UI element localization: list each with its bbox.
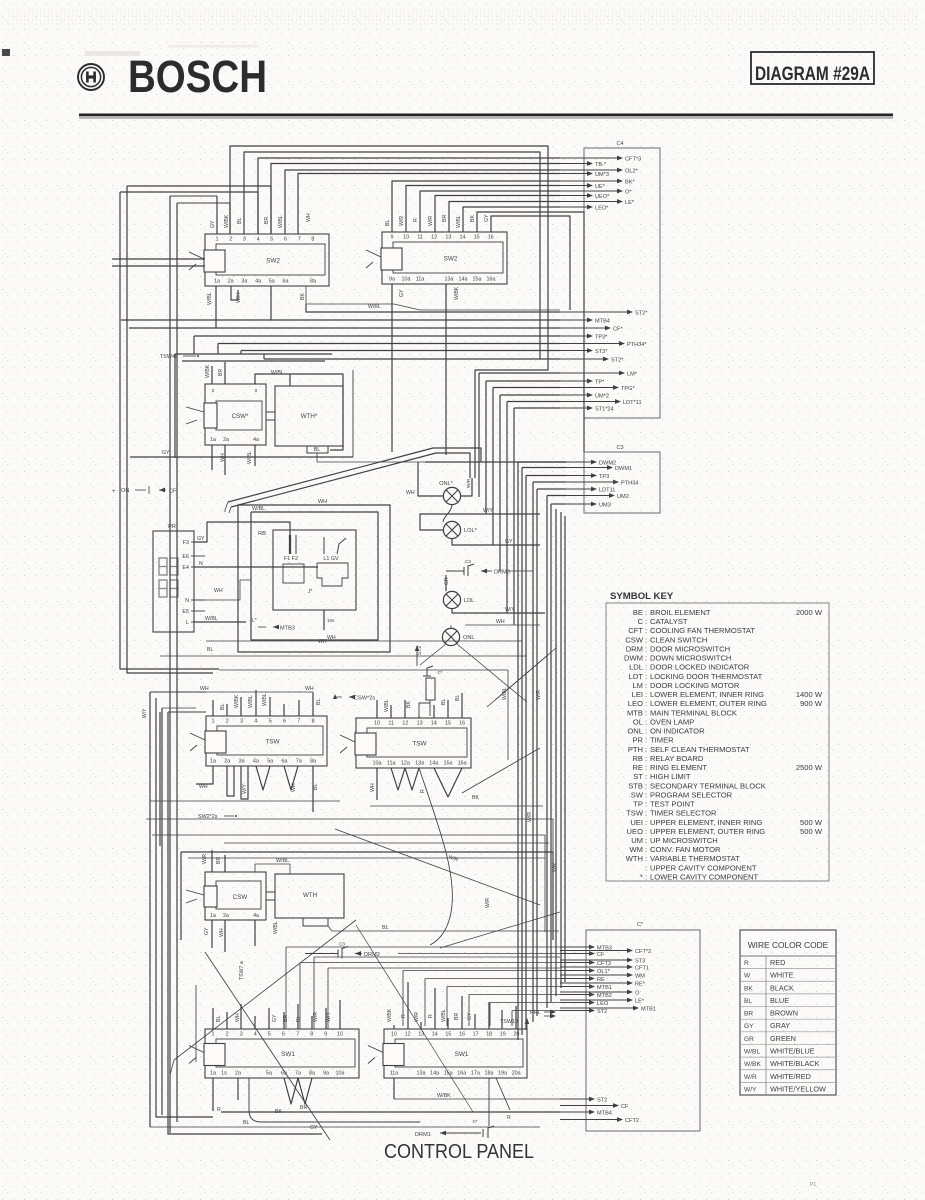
- wire loop around CSW*/WTH*: [182, 360, 325, 362]
- svg-text:WH: WH: [214, 588, 223, 594]
- svg-text:10: 10: [403, 235, 409, 241]
- wire SW2L 8a drop: [306, 286, 560, 310]
- svg-text:GR: GR: [444, 577, 450, 585]
- C1 terminal ST2: [560, 1010, 594, 1012]
- svg-text:CLEAN SWITCH: CLEAN SWITCH: [650, 635, 707, 644]
- wire SW1L bottom V loops: [284, 1078, 298, 1104]
- wire SW1L riser x269: [268, 1008, 270, 1029]
- C1 terminal CFT3: [560, 962, 594, 964]
- scan noise rows (decorative): [8, 11, 917, 13]
- C4 terminal OL2*: [560, 169, 622, 171]
- svg-text:W/BK: W/BK: [437, 1093, 451, 1099]
- svg-text:8: 8: [310, 1032, 313, 1038]
- svg-text:WH: WH: [220, 453, 226, 462]
- svg-text::: :: [645, 672, 647, 681]
- wire bundle vertical 4: [532, 482, 534, 1022]
- svg-text:SW1: SW1: [455, 1051, 469, 1058]
- svg-text:16: 16: [459, 1032, 465, 1038]
- C4 terminal CFT*3: [560, 157, 622, 159]
- connector C1 box: [586, 930, 700, 1131]
- svg-text:8a: 8a: [309, 1071, 315, 1077]
- wire bundle vertical 8: [555, 509, 557, 996]
- svg-text:C*: C*: [637, 922, 644, 928]
- wire bundle vertical 5: [536, 489, 538, 1016]
- svg-text:5: 5: [268, 1032, 271, 1038]
- svg-text:16: 16: [459, 721, 465, 727]
- svg-text:GY: GY: [310, 1125, 318, 1131]
- svg-text:9a: 9a: [389, 277, 395, 283]
- svg-text:SW2: SW2: [266, 258, 280, 265]
- wire TSWL pin7 riser: [298, 700, 300, 716]
- diagonal TSWR upper right: [495, 648, 556, 700]
- svg-text:R: R: [744, 960, 749, 967]
- svg-text:10a: 10a: [402, 277, 411, 283]
- svg-text:CFT1: CFT1: [635, 965, 649, 971]
- svg-text:BK: BK: [472, 795, 479, 801]
- svg-text:DOOR MICROSWITCH: DOOR MICROSWITCH: [650, 644, 730, 653]
- wire TSWR pin16 riser: [461, 693, 463, 718]
- svg-text:15a: 15a: [473, 277, 482, 283]
- svg-text:4a: 4a: [253, 437, 259, 443]
- svg-text:OVEN LAMP: OVEN LAMP: [650, 717, 694, 726]
- svg-text:ST2: ST2: [417, 646, 423, 655]
- wire feed x512: [512, 1010, 560, 1012]
- svg-text:UE*: UE*: [595, 184, 606, 190]
- svg-text:BR: BR: [744, 1011, 753, 1018]
- svg-text:2a: 2a: [235, 1071, 241, 1077]
- wire TSWR pin11 riser: [390, 705, 392, 718]
- svg-text:11a: 11a: [390, 1071, 399, 1077]
- wire band3 drop x514: [513, 408, 515, 625]
- svg-text:GY: GY: [744, 1023, 754, 1030]
- C4 terminal TB-*: [560, 163, 592, 165]
- C4 terminal ST2*: [560, 358, 608, 360]
- arrow MTB3: [258, 626, 266, 628]
- indicator lamp LOL*: [443, 521, 460, 538]
- wire CSW bottom drops: [211, 445, 213, 470]
- svg-text:W/R: W/R: [744, 1074, 757, 1081]
- svg-text:BL: BL: [237, 218, 243, 224]
- C1 terminal O: [560, 991, 632, 993]
- svg-text:18: 18: [486, 1032, 492, 1038]
- svg-text:W/Y: W/Y: [483, 508, 493, 514]
- svg-text:7: 7: [297, 719, 300, 725]
- svg-text:BL: BL: [296, 1016, 302, 1022]
- svg-text:W/Y: W/Y: [744, 1086, 757, 1093]
- wire feed x403: [403, 970, 560, 972]
- wire SW1L riser x241: [240, 1004, 242, 1029]
- C4 terminal LM*: [560, 372, 624, 374]
- svg-text:N: N: [199, 561, 203, 567]
- svg-text:BROWN: BROWN: [770, 1009, 798, 1018]
- wire TSWL pin3 riser: [240, 697, 242, 716]
- svg-text:GY: GY: [484, 214, 490, 222]
- diagonal riser pair 2: [231, 453, 470, 507]
- wire bundle vertical 1: [517, 462, 519, 1040]
- wire ONL top WH: [450, 625, 452, 628]
- svg-text:STB: STB: [628, 781, 643, 790]
- svg-text:CSW*: CSW*: [232, 413, 249, 420]
- svg-text:CONV. FAN MOTOR: CONV. FAN MOTOR: [650, 845, 721, 854]
- svg-text:WH: WH: [199, 784, 208, 790]
- svg-text:TP3*: TP3*: [595, 334, 608, 340]
- svg-text:4: 4: [254, 1032, 257, 1038]
- test point ST2 arrow: [416, 648, 418, 666]
- C4 terminal LDT*11: [560, 401, 620, 403]
- wire GY long: [150, 1126, 540, 1128]
- wire TSWL 1a WH left: [196, 766, 213, 784]
- svg-text:O: O: [635, 990, 640, 996]
- svg-text:L1 GV: L1 GV: [323, 556, 339, 562]
- wire SW1L riser x326: [325, 1008, 327, 1029]
- C1 terminal OL1*: [560, 970, 594, 972]
- label CSW*2s: [335, 696, 342, 698]
- svg-text:GY: GY: [204, 927, 210, 935]
- wire DRM3 to bundle: [508, 570, 533, 572]
- wire TSWR pin12 riser: [404, 700, 406, 718]
- svg-text:TIMER SELECTOR: TIMER SELECTOR: [650, 809, 717, 818]
- svg-text:ST1*24: ST1*24: [595, 406, 614, 412]
- wire SW1L riser x213: [212, 1008, 214, 1029]
- svg-text:13: 13: [417, 721, 423, 727]
- wire bundle vertical 2: [521, 468, 523, 1036]
- svg-text::: :: [645, 772, 647, 781]
- svg-text:11: 11: [388, 721, 394, 727]
- wire SW2R pin13 to C4 LE: [449, 202, 560, 233]
- svg-text:3: 3: [243, 237, 246, 243]
- wire SW2L pin7 to C4 UM3: [298, 174, 560, 235]
- svg-text:ONL: ONL: [463, 635, 475, 641]
- C1 terminal MTB2: [560, 994, 594, 996]
- svg-text:9: 9: [324, 1032, 327, 1038]
- svg-text:CONTROL PANEL: CONTROL PANEL: [384, 1140, 534, 1163]
- wire band3 drop x479: [478, 373, 480, 497]
- svg-text:TSW: TSW: [626, 809, 644, 818]
- svg-text::: :: [645, 863, 647, 872]
- svg-text:WH: WH: [200, 686, 209, 692]
- svg-text:CFT2: CFT2: [625, 1118, 639, 1124]
- svg-text:C: C: [638, 617, 644, 626]
- wire LDL right W/Y: [452, 609, 545, 613]
- svg-text:12: 12: [402, 721, 408, 727]
- wire SW2L pin4 to C4 CFT*3: [258, 158, 560, 234]
- svg-text:N: N: [185, 598, 189, 604]
- svg-text:8a: 8a: [310, 279, 316, 285]
- svg-text:11a: 11a: [387, 761, 396, 767]
- svg-text:BL: BL: [313, 784, 319, 790]
- wire GR drop to LDL: [445, 575, 447, 591]
- svg-text:1a: 1a: [210, 913, 216, 919]
- svg-text::: :: [645, 754, 647, 763]
- svg-text:SW: SW: [631, 790, 644, 799]
- svg-text:15a: 15a: [444, 761, 453, 767]
- wire CSWb top risers: [211, 850, 213, 872]
- wire RB bottom stub: [323, 610, 325, 630]
- svg-text:WM: WM: [635, 973, 645, 979]
- svg-text:MTB1: MTB1: [597, 985, 612, 991]
- svg-text:CSW: CSW: [233, 894, 248, 901]
- wire left bus x162: [161, 708, 163, 1115]
- wire BL curve: [249, 1078, 420, 1122]
- wire left vertical pair long: [169, 196, 171, 1133]
- svg-text:LDT11: LDT11: [599, 487, 615, 493]
- svg-text:W/BL: W/BL: [278, 215, 284, 228]
- variable thermostat WTH* (upper): [275, 386, 343, 446]
- wire ONL bottom diagonal: [457, 644, 527, 702]
- svg-text:18a: 18a: [485, 1071, 494, 1077]
- svg-text:PTH34: PTH34: [621, 480, 638, 486]
- C1 terminal ST2: [560, 1098, 594, 1100]
- wire PR E4 N long: [194, 566, 318, 568]
- svg-text:W/Y: W/Y: [326, 1012, 332, 1022]
- svg-text:TSW: TSW: [265, 739, 280, 746]
- wire to C4 CF: [129, 327, 560, 329]
- svg-text:TPG*: TPG*: [621, 386, 635, 392]
- C3 terminal LDT11: [566, 488, 596, 490]
- wire SW1L riser x227: [226, 1012, 228, 1029]
- svg-text:W/R: W/R: [414, 1012, 420, 1022]
- svg-text:W/R: W/R: [202, 854, 208, 864]
- wire bus SW2 top loop 2: [244, 152, 540, 359]
- wire TSWL pin2 riser: [226, 704, 228, 716]
- svg-text:SELF CLEAN THERMOSTAT: SELF CLEAN THERMOSTAT: [650, 745, 750, 754]
- C1 terminal MTB1: [560, 986, 594, 988]
- wire DRM2 row: [398, 953, 560, 955]
- svg-text:BLACK: BLACK: [770, 983, 794, 992]
- svg-text:LE*: LE*: [625, 200, 635, 206]
- wire diag SW1R pins up-right: [515, 1006, 517, 1029]
- svg-text:TP: TP: [633, 800, 643, 809]
- svg-text:17: 17: [473, 1032, 479, 1038]
- svg-text::: :: [645, 626, 647, 635]
- C4 terminal LEO*: [560, 206, 592, 208]
- svg-text:UEI: UEI: [630, 818, 643, 827]
- svg-text:TIMER: TIMER: [650, 736, 674, 745]
- wire color row GY: [740, 1031, 836, 1033]
- svg-text:2: 2: [229, 237, 232, 243]
- svg-text:DIAGRAM #29A: DIAGRAM #29A: [755, 64, 870, 85]
- svg-text:C4: C4: [616, 141, 623, 147]
- wire SW2L pin2 left bus: [229, 203, 231, 234]
- svg-text:4: 4: [257, 237, 260, 243]
- clean switch CSW* (upper): [205, 384, 266, 445]
- svg-text:6: 6: [283, 719, 286, 725]
- wire CSWb bottom drops: [211, 920, 213, 948]
- wire R long: [221, 1111, 560, 1113]
- svg-text:ST: ST: [633, 772, 643, 781]
- svg-text:2000 W: 2000 W: [796, 608, 823, 617]
- wire left pair top elbows: [170, 195, 217, 197]
- wire TSWR pin15 riser: [447, 700, 449, 718]
- wire lever stub 1: [112, 258, 205, 260]
- svg-text:WTH*: WTH*: [301, 413, 318, 420]
- svg-text:TP*: TP*: [595, 379, 605, 385]
- svg-text:LDL: LDL: [464, 598, 474, 604]
- wire loop RB inner: [251, 512, 378, 640]
- svg-text:10a: 10a: [336, 1071, 345, 1077]
- svg-text::: :: [645, 654, 647, 663]
- wire bundle vertical 9: [560, 512, 562, 988]
- svg-text:LOL*: LOL*: [464, 528, 478, 534]
- svg-text:W/R: W/R: [527, 812, 533, 822]
- diagonal upper right of SW1: [440, 912, 560, 948]
- wire SW2L pin5 to C4 TB: [271, 164, 560, 235]
- svg-text:UM2: UM2: [617, 494, 629, 500]
- svg-text:BL: BL: [382, 925, 389, 931]
- PR 7-segment clock digits: [159, 558, 178, 597]
- svg-text:CFT*2: CFT*2: [635, 949, 651, 955]
- svg-text:BR: BR: [300, 1105, 307, 1111]
- C3 terminal UM2: [566, 495, 614, 497]
- svg-text:MAIN TERMINAL BLOCK: MAIN TERMINAL BLOCK: [650, 708, 737, 717]
- wire SW2L pin3 riser-left: [127, 186, 271, 234]
- wire TSWL pin6 riser: [283, 704, 285, 716]
- svg-text:W/BL: W/BL: [248, 695, 254, 708]
- svg-text:14: 14: [432, 1032, 438, 1038]
- svg-text:L*: L*: [252, 618, 257, 624]
- svg-text:COOLING FAN THERMOSTAT: COOLING FAN THERMOSTAT: [650, 626, 755, 635]
- svg-text:14a: 14a: [459, 277, 468, 283]
- wire SW1L 1a drop R: [212, 1078, 214, 1111]
- svg-text:GY: GY: [505, 539, 513, 545]
- svg-text:OL1*: OL1*: [597, 969, 611, 975]
- timer selector TSW (right half): [356, 718, 471, 768]
- svg-text:7a: 7a: [296, 759, 302, 765]
- svg-text:RELAY BOARD: RELAY BOARD: [650, 754, 704, 763]
- wire loop CSW/WTH lower inner: [188, 858, 545, 932]
- svg-text:1a: 1a: [210, 759, 216, 765]
- clean switch CSW (lower): [205, 872, 266, 920]
- svg-text:W/BK: W/BK: [454, 286, 460, 300]
- svg-text:WH: WH: [291, 783, 297, 792]
- svg-text:BR: BR: [216, 857, 222, 864]
- svg-text:VARIABLE THERMOSTAT: VARIABLE THERMOSTAT: [650, 854, 740, 863]
- svg-text:UPPER ELEMENT, INNER RING: UPPER ELEMENT, INNER RING: [650, 818, 762, 827]
- svg-text:MTB4: MTB4: [595, 318, 610, 324]
- relay board RB: [273, 530, 356, 610]
- svg-text:BR: BR: [218, 369, 224, 376]
- C1 terminal CF: [560, 1105, 618, 1107]
- svg-text:BL: BL: [441, 699, 447, 705]
- svg-text:OL2*: OL2*: [625, 168, 639, 174]
- svg-text:SECONDARY TERMINAL BLOCK: SECONDARY TERMINAL BLOCK: [650, 781, 766, 790]
- wire TSWR 13a curve down: [419, 768, 452, 945]
- svg-text:TEST POINT: TEST POINT: [650, 800, 695, 809]
- C3 terminal PTH34: [566, 481, 618, 483]
- svg-text:GY: GY: [197, 536, 205, 542]
- wire WTH BL drop: [317, 453, 560, 462]
- svg-text:1: 1: [212, 1032, 215, 1038]
- svg-text:1a: 1a: [210, 437, 216, 443]
- svg-text:W/BK: W/BK: [744, 1061, 761, 1068]
- wire SW1R 19a slant: [496, 1078, 510, 1110]
- svg-text:WH: WH: [235, 1013, 241, 1022]
- wire TSWR pin13 riser: [418, 716, 420, 718]
- wire TSWR pin14 riser: [433, 705, 435, 718]
- svg-text::: :: [645, 854, 647, 863]
- wire W/BK under SW1R: [393, 1078, 395, 1099]
- wire to C1 row CF: [299, 963, 301, 1030]
- wire PR F3 GY: [194, 522, 290, 542]
- svg-text:LOWER ELEMENT, INNER RING: LOWER ELEMENT, INNER RING: [650, 690, 764, 699]
- C1 terminal MTB3: [560, 946, 594, 948]
- wire SW2R 9a drop: [391, 284, 393, 452]
- svg-text:BL: BL: [385, 220, 391, 226]
- svg-text:ST2*: ST2*: [611, 357, 624, 363]
- header rule: [79, 114, 893, 117]
- wire TSWL pin5 riser: [269, 697, 271, 716]
- svg-text:LOWER CAVITY COMPONENT: LOWER CAVITY COMPONENT: [650, 872, 759, 881]
- svg-text::: :: [645, 872, 647, 881]
- connector C4 box: [584, 148, 660, 418]
- svg-text:CFT*3: CFT*3: [625, 156, 641, 162]
- svg-text:UPPER ELEMENT, OUTER RING: UPPER ELEMENT, OUTER RING: [650, 827, 765, 836]
- wire TSWR pin10 riser: [376, 700, 378, 718]
- wire extra feed rows: [313, 957, 315, 1029]
- svg-text:500 W: 500 W: [800, 818, 823, 827]
- wire to C4 TP3: [193, 336, 195, 354]
- svg-text:UM*3: UM*3: [595, 172, 609, 178]
- svg-text:15: 15: [445, 1032, 451, 1038]
- svg-text::: :: [645, 818, 647, 827]
- C3 terminal DWM1: [566, 467, 612, 469]
- svg-text:WH: WH: [370, 783, 376, 792]
- svg-text:WH: WH: [306, 213, 312, 222]
- wire to C4 PTH34: [217, 344, 219, 355]
- svg-text:BK: BK: [300, 293, 306, 300]
- svg-text:BL: BL: [744, 998, 752, 1005]
- svg-text:WH: WH: [496, 619, 505, 625]
- wire TSWL pin1 riser: [212, 700, 214, 716]
- svg-text:BR: BR: [264, 217, 270, 224]
- C1 terminal CFT2: [560, 1119, 622, 1121]
- C4 terminal UEO*: [560, 195, 592, 197]
- svg-text:W/BL: W/BL: [276, 858, 289, 864]
- wire to C4 lower row 3: [493, 387, 560, 389]
- svg-text:TB-*: TB-*: [595, 162, 607, 168]
- svg-text:W/BL: W/BL: [271, 370, 284, 376]
- wire bundle vertical 6: [546, 496, 548, 1009]
- wire to C4 ST2 (band2): [306, 304, 560, 312]
- wire band3 drop x507: [506, 402, 508, 614]
- wire horizontal 670: [219, 670, 508, 760]
- wire color code table: [740, 930, 836, 1095]
- svg-text:W/BL: W/BL: [273, 921, 279, 934]
- svg-text:2a: 2a: [223, 437, 229, 443]
- svg-text::: :: [645, 708, 647, 717]
- svg-text:15: 15: [474, 235, 480, 241]
- svg-text:ST3*: ST3*: [595, 349, 608, 355]
- RB input stubs: [289, 535, 291, 554]
- svg-text:13a: 13a: [417, 1071, 426, 1077]
- svg-text:11a: 11a: [416, 277, 425, 283]
- svg-text:R: R: [428, 1014, 434, 1018]
- svg-text:TSW: TSW: [412, 741, 427, 748]
- svg-text:1s: 1s: [221, 1071, 227, 1077]
- timer PR with clock display: [153, 531, 194, 632]
- svg-text::: :: [645, 727, 647, 736]
- svg-text:C3: C3: [616, 445, 623, 451]
- svg-text:WH: WH: [219, 928, 225, 937]
- indicator lamp ONL: [442, 628, 459, 645]
- C1 terminal ST3: [560, 959, 632, 961]
- svg-text:C*: C*: [472, 1119, 477, 1124]
- svg-text:1: 1: [216, 237, 219, 243]
- wire to C4 lower row 4: [500, 394, 560, 396]
- svg-text::: :: [645, 790, 647, 799]
- svg-text:PTH: PTH: [628, 745, 643, 754]
- svg-text::: :: [645, 745, 647, 754]
